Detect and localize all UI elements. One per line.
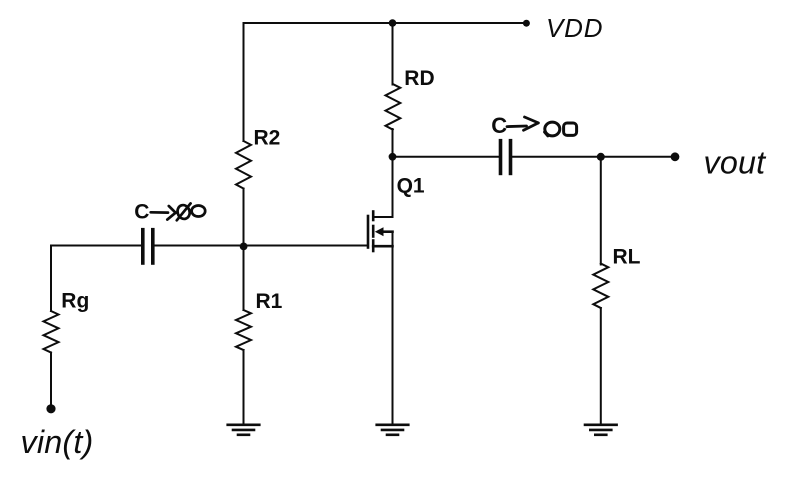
node vout terminal bbox=[671, 152, 680, 161]
svg-text:R2: R2 bbox=[254, 126, 281, 149]
svg-text:RL: RL bbox=[613, 245, 641, 268]
wire input to coupling cap bbox=[51, 245, 141, 247]
wire top VDD rail bbox=[244, 22, 527, 24]
wire RD to drain node bbox=[392, 129, 394, 157]
wire R2 bottom to gate node bbox=[243, 189, 245, 246]
svg-text:vout: vout bbox=[704, 145, 768, 181]
ground R1 bbox=[228, 425, 260, 435]
resistor R1 bbox=[236, 290, 283, 350]
svg-text:C: C bbox=[491, 113, 507, 138]
wire cap to gate node bbox=[155, 245, 244, 247]
resistor R2 bbox=[236, 126, 280, 188]
svg-text:VDD: VDD bbox=[546, 13, 603, 43]
resistor Rg bbox=[44, 289, 90, 352]
resistor RL bbox=[593, 245, 640, 308]
node vin terminal bbox=[46, 404, 55, 413]
transistor Q1 bbox=[368, 212, 393, 252]
capacitor C input arrow bbox=[151, 206, 176, 220]
capacitor C input label bbox=[134, 201, 149, 224]
wire R1 to ground bbox=[243, 350, 245, 425]
svg-text:RD: RD bbox=[404, 67, 434, 90]
capacitor C output bbox=[501, 141, 511, 174]
svg-text:R1: R1 bbox=[256, 290, 283, 313]
ground Q1 source bbox=[377, 425, 409, 435]
ground RL bbox=[585, 425, 617, 435]
capacitor C output arrow bbox=[507, 117, 538, 130]
wire RL node to vout terminal bbox=[601, 156, 675, 158]
wire R1 top bbox=[243, 246, 245, 311]
svg-text:Rg: Rg bbox=[61, 289, 89, 312]
capacitor C output infinity bbox=[545, 122, 577, 136]
wire drain vertical bbox=[373, 157, 392, 217]
wire drain to output cap bbox=[393, 156, 499, 158]
wire RL top bbox=[600, 157, 602, 265]
wire input left vertical bbox=[50, 246, 52, 312]
node RL junction bbox=[597, 153, 605, 161]
wire gate node to MOSFET gate bbox=[244, 245, 369, 247]
svg-text:vin(t): vin(t) bbox=[21, 424, 94, 460]
wire cap to RL node bbox=[512, 156, 601, 158]
wire RD top bbox=[392, 23, 394, 85]
wire RL to ground bbox=[600, 308, 602, 425]
svg-text:Q1: Q1 bbox=[397, 174, 425, 197]
node drain junction bbox=[389, 153, 397, 161]
capacitor C input infinity bbox=[176, 203, 205, 220]
wire Rg to input terminal bbox=[50, 353, 52, 409]
resistor RD bbox=[386, 67, 435, 129]
node VDD junction bbox=[389, 19, 397, 27]
svg-text:C: C bbox=[134, 201, 149, 224]
wire R2 top bbox=[243, 23, 245, 141]
node VDD terminal bbox=[523, 20, 530, 27]
node gate junction bbox=[240, 243, 248, 251]
wire source to ground bbox=[392, 232, 394, 425]
capacitor C input bbox=[143, 230, 153, 263]
